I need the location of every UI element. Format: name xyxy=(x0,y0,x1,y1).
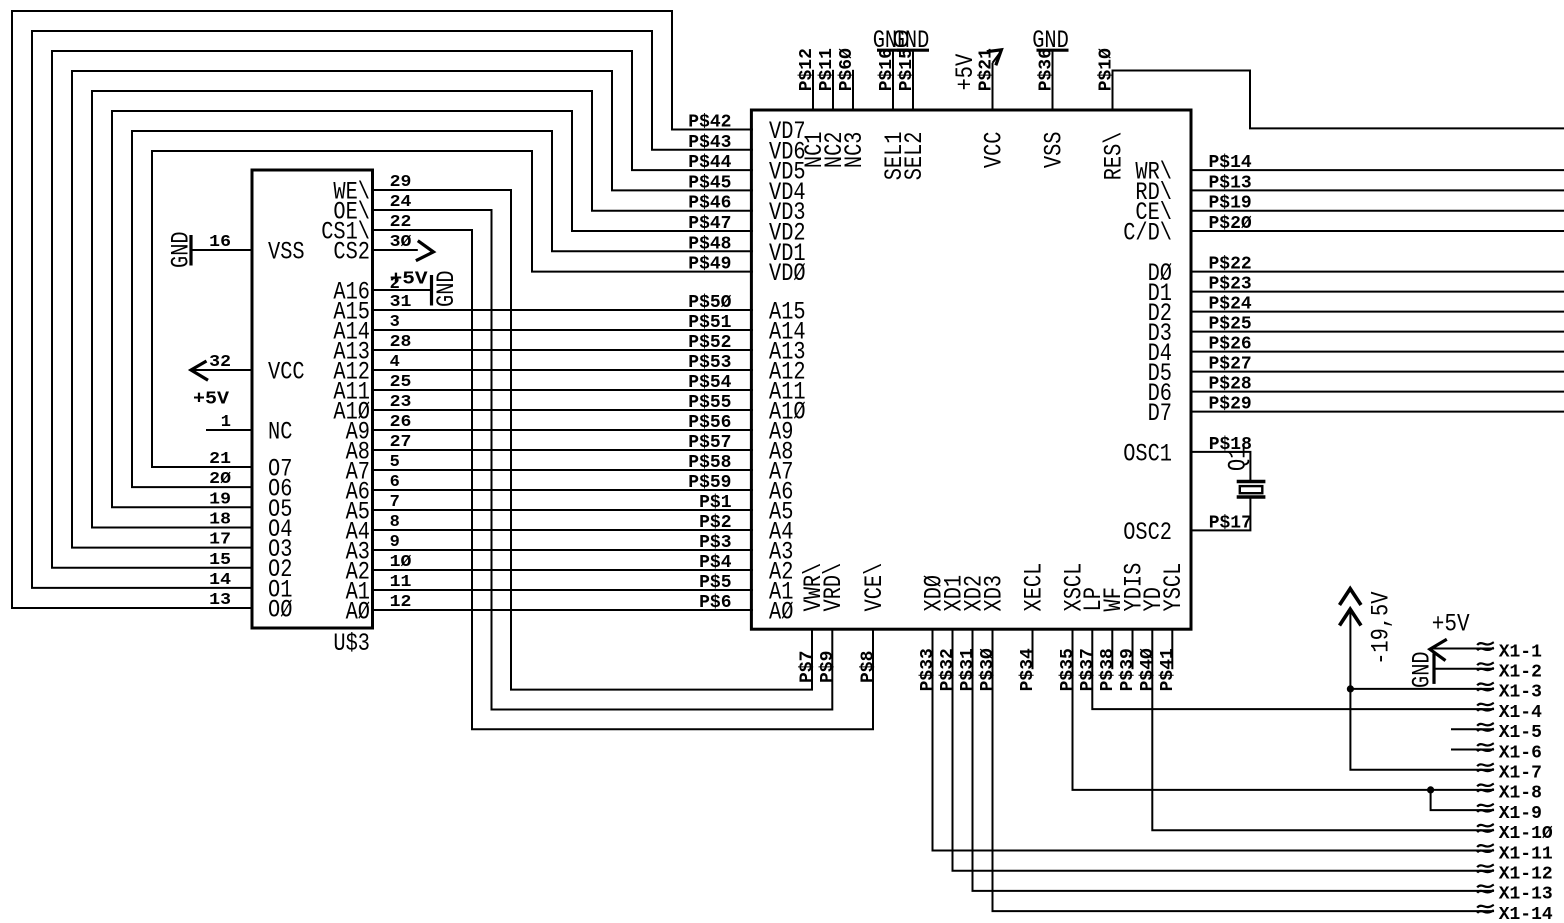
wire U$3 A1 pin 11 to IC A1 P$5 xyxy=(373,573,754,593)
IC pin SEL1 P$16 wire to ground xyxy=(877,48,897,110)
wire U$3 A6 pin 6 to IC A6 P$59 xyxy=(373,473,754,493)
svg-text:OØ: OØ xyxy=(268,596,292,625)
svg-text:P$47: P$47 xyxy=(688,214,731,234)
svg-text:X1-6: X1-6 xyxy=(1499,743,1542,763)
svg-text:P$35: P$35 xyxy=(1058,648,1078,691)
svg-text:P$56: P$56 xyxy=(688,413,731,433)
svg-text:2Ø: 2Ø xyxy=(209,470,231,489)
wire IC D1 P$23 to right edge xyxy=(1191,275,1564,295)
IC YSCL P$41 stub xyxy=(1158,629,1178,691)
svg-text:+5V: +5V xyxy=(390,269,428,289)
svg-text:P$33: P$33 xyxy=(918,648,938,691)
svg-text:P$14: P$14 xyxy=(1209,153,1252,173)
svg-text:X1-9: X1-9 xyxy=(1499,804,1542,824)
svg-text:X1-3: X1-3 xyxy=(1499,683,1542,703)
wire IC XD1 P$32 to X1-12 xyxy=(938,629,1553,884)
svg-text:X1-7: X1-7 xyxy=(1499,764,1542,784)
svg-text:P$51: P$51 xyxy=(688,313,731,333)
svg-text:4: 4 xyxy=(390,353,400,372)
wire U$3 O7 pin 21 to IC VD0 P$49 xyxy=(152,151,753,469)
connector pin X1-1 wire xyxy=(1431,642,1543,662)
ground symbol GND at U$3 VSS xyxy=(167,231,196,268)
svg-text:6: 6 xyxy=(390,473,400,492)
svg-text:5: 5 xyxy=(390,453,400,472)
svg-text:XECL: XECL xyxy=(1019,563,1048,612)
wire IC XD0 P$33 to X1-11 xyxy=(918,629,1553,864)
wire IC D6 P$28 to right edge xyxy=(1191,375,1564,395)
ground symbol GND at SEL2 xyxy=(893,26,930,55)
svg-text:19: 19 xyxy=(209,490,231,509)
IC pin NC2 P$11 stub xyxy=(817,48,837,110)
ground symbol GND at IC VSS xyxy=(1032,26,1069,55)
connector pin X1-5 stub xyxy=(1451,723,1542,743)
U$3 pin names right column xyxy=(321,178,370,627)
wire -19,5V net down to X1-7 xyxy=(1350,689,1542,784)
svg-text:X1-1Ø: X1-1Ø xyxy=(1499,824,1553,844)
wire U$3 A11 pin 25 to IC A11 P$54 xyxy=(373,373,754,393)
IC pin SEL2 P$15 wire to ground xyxy=(897,48,917,110)
svg-text:P$31: P$31 xyxy=(958,648,978,691)
svg-text:P$32: P$32 xyxy=(938,648,958,691)
wire U$3 A0 pin 12 to IC A0 P$6 xyxy=(373,593,754,613)
wire U$3 A13 pin 28 to IC A13 P$52 xyxy=(373,333,754,353)
supply +5V arrow at X1-1 xyxy=(1430,610,1470,661)
svg-text:+5V: +5V xyxy=(1432,610,1470,639)
svg-text:9: 9 xyxy=(390,533,400,552)
wire U$3 A9 pin 26 to IC A9 P$56 xyxy=(373,413,754,433)
U$3 pin names left column xyxy=(268,238,305,625)
svg-text:P$22: P$22 xyxy=(1209,255,1252,275)
wire U$3 A15 pin 31 to IC A15 P$50 xyxy=(373,293,754,313)
IC WF P$38 stub xyxy=(1098,629,1118,691)
svg-text:P$2Ø: P$2Ø xyxy=(1209,214,1252,234)
svg-text:VSS: VSS xyxy=(268,238,305,267)
svg-text:+5V: +5V xyxy=(193,389,229,409)
svg-text:NC: NC xyxy=(268,418,292,447)
svg-text:AØ: AØ xyxy=(346,598,370,627)
LCD controller IC body xyxy=(751,110,1191,629)
svg-text:P$13: P$13 xyxy=(1209,173,1252,193)
svg-text:OSC2: OSC2 xyxy=(1123,518,1172,547)
svg-text:P$42: P$42 xyxy=(688,113,731,133)
svg-text:X1-11: X1-11 xyxy=(1499,844,1553,864)
svg-text:P$2: P$2 xyxy=(699,513,731,533)
svg-text:P$4: P$4 xyxy=(699,553,732,573)
svg-text:P$17: P$17 xyxy=(1209,513,1252,533)
svg-text:P$24: P$24 xyxy=(1209,295,1252,315)
svg-text:X1-5: X1-5 xyxy=(1499,723,1542,743)
svg-text:17: 17 xyxy=(209,531,231,550)
svg-text:14: 14 xyxy=(209,571,231,590)
svg-text:VSS: VSS xyxy=(1039,132,1068,169)
ground symbol GND at SEL1 xyxy=(873,26,910,55)
svg-text:21: 21 xyxy=(209,450,231,469)
svg-text:VCC: VCC xyxy=(268,358,305,387)
svg-text:P$48: P$48 xyxy=(688,234,731,254)
svg-text:13: 13 xyxy=(209,591,231,610)
wire U$3 O3 pin 17 to IC VD4 P$45 xyxy=(72,71,753,550)
svg-text:P$12: P$12 xyxy=(797,48,817,91)
svg-text:P$38: P$38 xyxy=(1098,648,1118,691)
svg-text:X1-2: X1-2 xyxy=(1499,663,1542,683)
wire U$3 O0 pin 13 to IC VD7 P$42 xyxy=(12,11,753,610)
svg-text:29: 29 xyxy=(390,173,412,192)
IC pin NC1 P$12 stub xyxy=(797,48,817,110)
svg-text:P$46: P$46 xyxy=(688,194,731,214)
svg-text:P$29: P$29 xyxy=(1209,395,1252,415)
svg-text:22: 22 xyxy=(390,213,412,232)
svg-text:1: 1 xyxy=(221,413,231,432)
U$3 CS2 pin 30 stub with arrow xyxy=(373,233,434,261)
svg-text:X1-8: X1-8 xyxy=(1499,784,1542,804)
svg-text:25: 25 xyxy=(390,373,412,392)
svg-text:P$58: P$58 xyxy=(688,453,731,473)
wire U$3 A10 pin 23 to IC A10 P$55 xyxy=(373,393,754,413)
wire IC D7 P$29 to right edge xyxy=(1191,395,1564,415)
svg-text:P$6Ø: P$6Ø xyxy=(837,48,857,91)
wire U$3 WE\ pin 29 to IC VWR\ P$7 xyxy=(373,173,818,690)
wire U$3 A7 pin 5 to IC A7 P$58 xyxy=(373,453,754,473)
svg-text:X1-12: X1-12 xyxy=(1499,865,1553,885)
memory IC U$3 body xyxy=(252,170,373,658)
wire IC D5 P$27 to right edge xyxy=(1191,355,1564,375)
svg-text:P$45: P$45 xyxy=(688,173,731,193)
wire IC OSC1 P$18 to crystal xyxy=(1191,435,1252,482)
svg-text:P$23: P$23 xyxy=(1209,275,1252,295)
svg-text:31: 31 xyxy=(390,293,412,312)
svg-text:VDØ: VDØ xyxy=(769,259,806,288)
svg-text:VCC: VCC xyxy=(979,132,1008,169)
svg-text:RES\: RES\ xyxy=(1099,132,1128,181)
svg-text:3Ø: 3Ø xyxy=(390,233,412,252)
wire U$3 A14 pin 3 to IC A14 P$51 xyxy=(373,313,754,333)
svg-text:27: 27 xyxy=(390,433,412,452)
svg-text:P$5: P$5 xyxy=(699,573,731,593)
wire IC XD3 P$30 to X1-14 xyxy=(978,629,1553,923)
svg-text:26: 26 xyxy=(390,413,412,432)
connector pin X1-2 wire xyxy=(1434,662,1542,682)
wire U$3 A2 pin 10 to IC A2 P$4 xyxy=(373,553,754,573)
wire IC YD P$40 to X1-10 xyxy=(1138,629,1553,844)
wire U$3 CS1\ pin 22 to IC VCE\ P$8 xyxy=(373,213,879,729)
wire U$3 A8 pin 27 to IC A8 P$57 xyxy=(373,433,754,453)
svg-text:P$7: P$7 xyxy=(798,651,818,683)
svg-text:X1-4: X1-4 xyxy=(1499,703,1542,723)
junction node at X1-3 xyxy=(1347,685,1354,692)
svg-text:OSC1: OSC1 xyxy=(1123,439,1172,468)
svg-text:P$4Ø: P$4Ø xyxy=(1138,648,1158,691)
IC XECL P$34 stub xyxy=(1018,629,1038,691)
svg-text:P$1: P$1 xyxy=(699,493,732,513)
svg-text:-19,5V: -19,5V xyxy=(1367,592,1396,665)
wire U$3 O4 pin 18 to IC VD3 P$46 xyxy=(92,91,753,530)
wire U$3 A3 pin 9 to IC A3 P$3 xyxy=(373,533,754,553)
svg-text:28: 28 xyxy=(390,333,412,352)
svg-text:24: 24 xyxy=(390,193,412,212)
wire IC D3 P$25 to right edge xyxy=(1191,315,1564,335)
supply +5V label at U$3 VCC xyxy=(193,389,229,409)
svg-text:+5V: +5V xyxy=(951,54,980,91)
svg-text:U$3: U$3 xyxy=(333,629,370,658)
wire IC RD\ P$13 to right edge xyxy=(1191,173,1564,193)
wire U$3 O5 pin 19 to IC VD2 P$47 xyxy=(112,111,753,509)
svg-text:18: 18 xyxy=(209,511,231,530)
wire U$3 A12 pin 4 to IC A12 P$53 xyxy=(373,353,754,373)
svg-text:VCE\: VCE\ xyxy=(860,563,889,612)
U$3 pin 32 VCC wire with +5V arrow xyxy=(191,353,252,380)
svg-text:P$11: P$11 xyxy=(817,48,837,91)
svg-text:P$19: P$19 xyxy=(1209,194,1252,214)
svg-text:P$39: P$39 xyxy=(1118,648,1138,691)
IC pin names left column A15-A0 xyxy=(769,298,806,627)
svg-text:P$54: P$54 xyxy=(688,373,731,393)
svg-text:AØ: AØ xyxy=(769,598,793,627)
wire IC D2 P$24 to right edge xyxy=(1191,295,1564,315)
ground symbol GND at X1-2 xyxy=(1408,651,1437,688)
svg-text:P$53: P$53 xyxy=(688,353,731,373)
wire U$3 O1 pin 14 to IC VD6 P$43 xyxy=(32,31,753,590)
svg-text:P$49: P$49 xyxy=(688,255,731,275)
svg-text:GND: GND xyxy=(432,270,461,307)
svg-text:XD3: XD3 xyxy=(979,575,1008,612)
wire IC RES\ P$10 to right edge xyxy=(1097,48,1564,129)
U$3 pin 1 NC stub xyxy=(206,413,252,432)
svg-text:GND: GND xyxy=(167,231,196,268)
wire IC D0 P$22 to right edge xyxy=(1191,255,1564,275)
svg-text:X1-14: X1-14 xyxy=(1499,905,1553,923)
svg-text:P$34: P$34 xyxy=(1018,648,1038,691)
svg-text:C/D\: C/D\ xyxy=(1123,219,1172,248)
svg-text:P$27: P$27 xyxy=(1209,355,1252,375)
wire U$3 O6 pin 20 to IC VD1 P$48 xyxy=(132,131,753,489)
svg-text:P$5Ø: P$5Ø xyxy=(688,293,731,313)
svg-text:VRD\: VRD\ xyxy=(819,563,848,612)
IC pin names top row (rotated) xyxy=(800,132,1129,181)
svg-text:11: 11 xyxy=(390,573,412,592)
ground symbol GND at U$3 A16 xyxy=(432,270,462,307)
wire X1-8 node down to X1-9 xyxy=(1431,790,1542,824)
svg-text:P$37: P$37 xyxy=(1078,648,1098,691)
wire IC CE\ P$19 to right edge xyxy=(1191,194,1564,214)
wire U$3 A5 pin 7 to IC A5 P$1 xyxy=(373,493,754,513)
supply +5V label at U$3 A16 xyxy=(390,269,428,289)
wire U$3 O2 pin 15 to IC VD5 P$44 xyxy=(52,51,753,570)
crystal Q1 xyxy=(1224,447,1266,497)
svg-text:P$3Ø: P$3Ø xyxy=(978,648,998,691)
svg-text:12: 12 xyxy=(390,593,412,612)
svg-text:1Ø: 1Ø xyxy=(390,553,412,572)
svg-text:SEL2: SEL2 xyxy=(900,132,929,181)
wire IC XSCL P$35 to X1-8 xyxy=(1058,629,1542,804)
svg-text:P$9: P$9 xyxy=(818,651,838,683)
svg-text:P$26: P$26 xyxy=(1209,335,1252,355)
svg-text:Q1: Q1 xyxy=(1224,447,1253,471)
wire crystal to IC OSC2 P$17 xyxy=(1191,497,1252,533)
IC pin names right column xyxy=(1123,158,1172,547)
wire IC WR\ P$14 to right edge xyxy=(1191,153,1564,173)
svg-text:GND: GND xyxy=(893,26,930,55)
svg-text:7: 7 xyxy=(390,493,400,512)
U$3 A16 pin 2 wire to ground xyxy=(373,275,432,294)
svg-text:P$3: P$3 xyxy=(699,533,731,553)
svg-text:P$41: P$41 xyxy=(1158,648,1178,691)
connector pin X1-3 wire xyxy=(1350,683,1542,703)
svg-text:3: 3 xyxy=(390,313,400,332)
connector pin X1-6 stub xyxy=(1451,743,1542,763)
svg-text:P$55: P$55 xyxy=(688,393,731,413)
svg-text:X1-13: X1-13 xyxy=(1499,885,1553,905)
svg-text:8: 8 xyxy=(390,513,400,532)
wire U$3 A4 pin 8 to IC A4 P$2 xyxy=(373,513,754,533)
svg-text:D7: D7 xyxy=(1148,399,1172,428)
svg-text:P$1Ø: P$1Ø xyxy=(1097,48,1117,91)
wire IC XD2 P$31 to X1-13 xyxy=(958,629,1553,905)
U$3 pin 16 VSS wire xyxy=(192,233,252,252)
svg-text:P$8: P$8 xyxy=(859,651,879,683)
IC pin NC3 P$60 stub xyxy=(837,48,857,110)
svg-text:NC3: NC3 xyxy=(840,132,869,169)
supply -19,5V arrow xyxy=(1340,589,1396,689)
wire IC LP P$37 to X1-4 xyxy=(1078,629,1542,723)
svg-text:32: 32 xyxy=(209,353,231,372)
svg-text:16: 16 xyxy=(209,233,231,252)
wire IC C/D\ P$20 to right edge xyxy=(1191,214,1564,234)
svg-text:23: 23 xyxy=(390,393,412,412)
svg-text:P$28: P$28 xyxy=(1209,375,1252,395)
wire U$3 OE\ pin 24 to IC VRD\ P$9 xyxy=(373,193,838,710)
svg-text:P$59: P$59 xyxy=(688,473,731,493)
svg-text:X1-1: X1-1 xyxy=(1499,642,1542,662)
svg-text:GND: GND xyxy=(1032,26,1069,55)
IC pin names left column VD7-VD0 xyxy=(769,117,806,288)
svg-text:CS2: CS2 xyxy=(333,238,370,267)
svg-text:YSCL: YSCL xyxy=(1159,563,1188,612)
svg-text:P$6: P$6 xyxy=(699,593,731,613)
IC YDIS P$39 stub xyxy=(1118,629,1138,691)
supply +5V label at IC VCC xyxy=(951,54,980,91)
svg-text:P$52: P$52 xyxy=(688,333,731,353)
svg-text:P$25: P$25 xyxy=(1209,315,1252,335)
svg-text:P$44: P$44 xyxy=(688,153,731,173)
IC pin VCC P$21 wire with +5V arrow xyxy=(977,48,1002,110)
svg-text:15: 15 xyxy=(209,551,231,570)
IC pin VSS P$36 wire to ground xyxy=(1037,48,1057,110)
junction node at X1-8 xyxy=(1427,786,1434,793)
svg-text:P$43: P$43 xyxy=(688,133,731,153)
wire IC D4 P$26 to right edge xyxy=(1191,335,1564,355)
svg-text:GND: GND xyxy=(1408,651,1437,688)
IC pin names bottom row (rotated) xyxy=(799,563,1188,612)
svg-text:P$57: P$57 xyxy=(688,433,731,453)
